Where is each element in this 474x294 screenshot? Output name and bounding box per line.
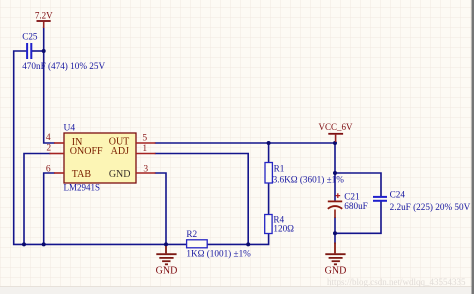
svg-text:LM2941S: LM2941S [64, 183, 101, 193]
svg-text:R1: R1 [274, 163, 285, 173]
svg-text:3: 3 [143, 165, 148, 175]
svg-text:R2: R2 [186, 229, 197, 239]
svg-text:C21: C21 [344, 191, 360, 201]
svg-text:470nF (474) 10% 25V: 470nF (474) 10% 25V [22, 61, 105, 71]
svg-text:120Ω: 120Ω [273, 224, 294, 234]
svg-text:GND: GND [325, 266, 347, 277]
svg-text:2: 2 [46, 143, 51, 153]
svg-text:ONOFF: ONOFF [70, 146, 103, 157]
svg-text:3.6KΩ (3601) ±1%: 3.6KΩ (3601) ±1% [273, 175, 345, 185]
svg-text:https://blog.csdn.net/wdlqq_43: https://blog.csdn.net/wdlqq_43554335 [327, 277, 466, 287]
svg-text:C25: C25 [22, 31, 38, 41]
svg-text:ADJ: ADJ [111, 146, 129, 157]
svg-text:7.2V: 7.2V [35, 11, 53, 21]
svg-text:1KΩ (1001) ±1%: 1KΩ (1001) ±1% [186, 249, 251, 259]
svg-text:6: 6 [46, 164, 51, 174]
svg-text:GND: GND [156, 266, 178, 277]
svg-text:5: 5 [142, 133, 147, 143]
svg-text:U4: U4 [64, 123, 76, 133]
svg-text:VCC_6V: VCC_6V [318, 122, 353, 132]
svg-text:TAB: TAB [72, 169, 92, 180]
svg-text:680uF: 680uF [344, 201, 368, 211]
svg-text:1: 1 [142, 144, 147, 154]
svg-text:2.2uF (225) 20% 50V: 2.2uF (225) 20% 50V [390, 202, 471, 212]
svg-text:C24: C24 [390, 189, 406, 199]
svg-text:4: 4 [46, 133, 51, 143]
svg-text:GND: GND [109, 169, 131, 180]
